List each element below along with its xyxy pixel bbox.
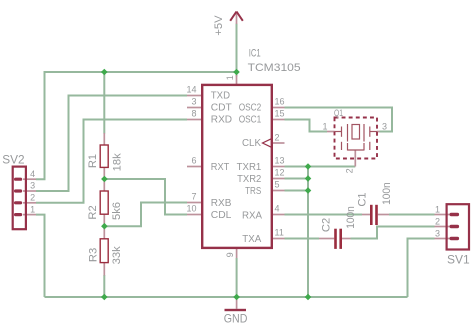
svg-text:4: 4: [275, 204, 280, 214]
svg-text:C1: C1: [357, 192, 369, 206]
svg-text:5k6: 5k6: [111, 202, 123, 220]
svg-text:100n: 100n: [381, 182, 393, 205]
svg-text:6: 6: [191, 156, 196, 166]
svg-text:11: 11: [275, 228, 284, 238]
svg-text:18k: 18k: [111, 153, 123, 171]
svg-text:100n: 100n: [345, 206, 357, 229]
svg-text:1: 1: [30, 204, 35, 214]
svg-text:CDT: CDT: [211, 102, 232, 113]
svg-text:3: 3: [191, 97, 196, 107]
svg-text:SV1: SV1: [447, 252, 470, 266]
svg-text:TXR1: TXR1: [237, 162, 262, 173]
svg-text:TCM3105: TCM3105: [248, 62, 301, 74]
svg-text:3: 3: [435, 229, 440, 239]
svg-text:1: 1: [225, 75, 235, 80]
svg-text:7: 7: [191, 192, 196, 202]
svg-text:14: 14: [186, 85, 196, 95]
svg-text:3: 3: [382, 122, 387, 132]
svg-text:SV2: SV2: [2, 152, 24, 166]
svg-text:16: 16: [275, 97, 285, 107]
svg-text:3: 3: [30, 181, 35, 191]
svg-text:8: 8: [191, 109, 196, 119]
svg-text:RXB: RXB: [211, 198, 232, 209]
svg-text:OSC1: OSC1: [239, 114, 262, 125]
svg-text:IC1: IC1: [249, 48, 261, 60]
svg-text:2: 2: [435, 217, 440, 227]
svg-text:33k: 33k: [111, 246, 123, 264]
svg-text:TXR2: TXR2: [237, 174, 262, 185]
svg-text:2: 2: [345, 168, 355, 173]
svg-text:RXA: RXA: [242, 210, 262, 221]
svg-text:R3: R3: [87, 248, 99, 262]
svg-text:15: 15: [275, 109, 285, 119]
svg-text:RXD: RXD: [211, 114, 232, 125]
svg-text:CDL: CDL: [211, 210, 232, 221]
svg-text:2: 2: [275, 132, 280, 142]
svg-text:R2: R2: [87, 205, 99, 219]
svg-text:10: 10: [186, 204, 196, 214]
svg-text:R1: R1: [87, 154, 99, 168]
svg-text:1: 1: [435, 205, 440, 215]
svg-text:CLK: CLK: [242, 138, 261, 149]
svg-text:OSC2: OSC2: [239, 102, 262, 113]
svg-text:C2: C2: [320, 218, 332, 232]
svg-text:4: 4: [30, 169, 35, 179]
svg-text:TRS: TRS: [245, 186, 261, 197]
svg-text:+5V: +5V: [213, 15, 225, 36]
svg-text:TXA: TXA: [242, 234, 261, 245]
svg-text:13: 13: [275, 156, 285, 166]
svg-text:2: 2: [30, 193, 35, 203]
svg-text:12: 12: [275, 168, 285, 178]
svg-text:RXT: RXT: [211, 162, 230, 173]
svg-text:9: 9: [225, 252, 235, 257]
svg-text:GND: GND: [224, 313, 248, 326]
svg-text:5: 5: [275, 180, 280, 190]
svg-text:Q1: Q1: [334, 108, 343, 118]
svg-text:1: 1: [322, 122, 327, 132]
svg-text:TXD: TXD: [211, 90, 230, 101]
